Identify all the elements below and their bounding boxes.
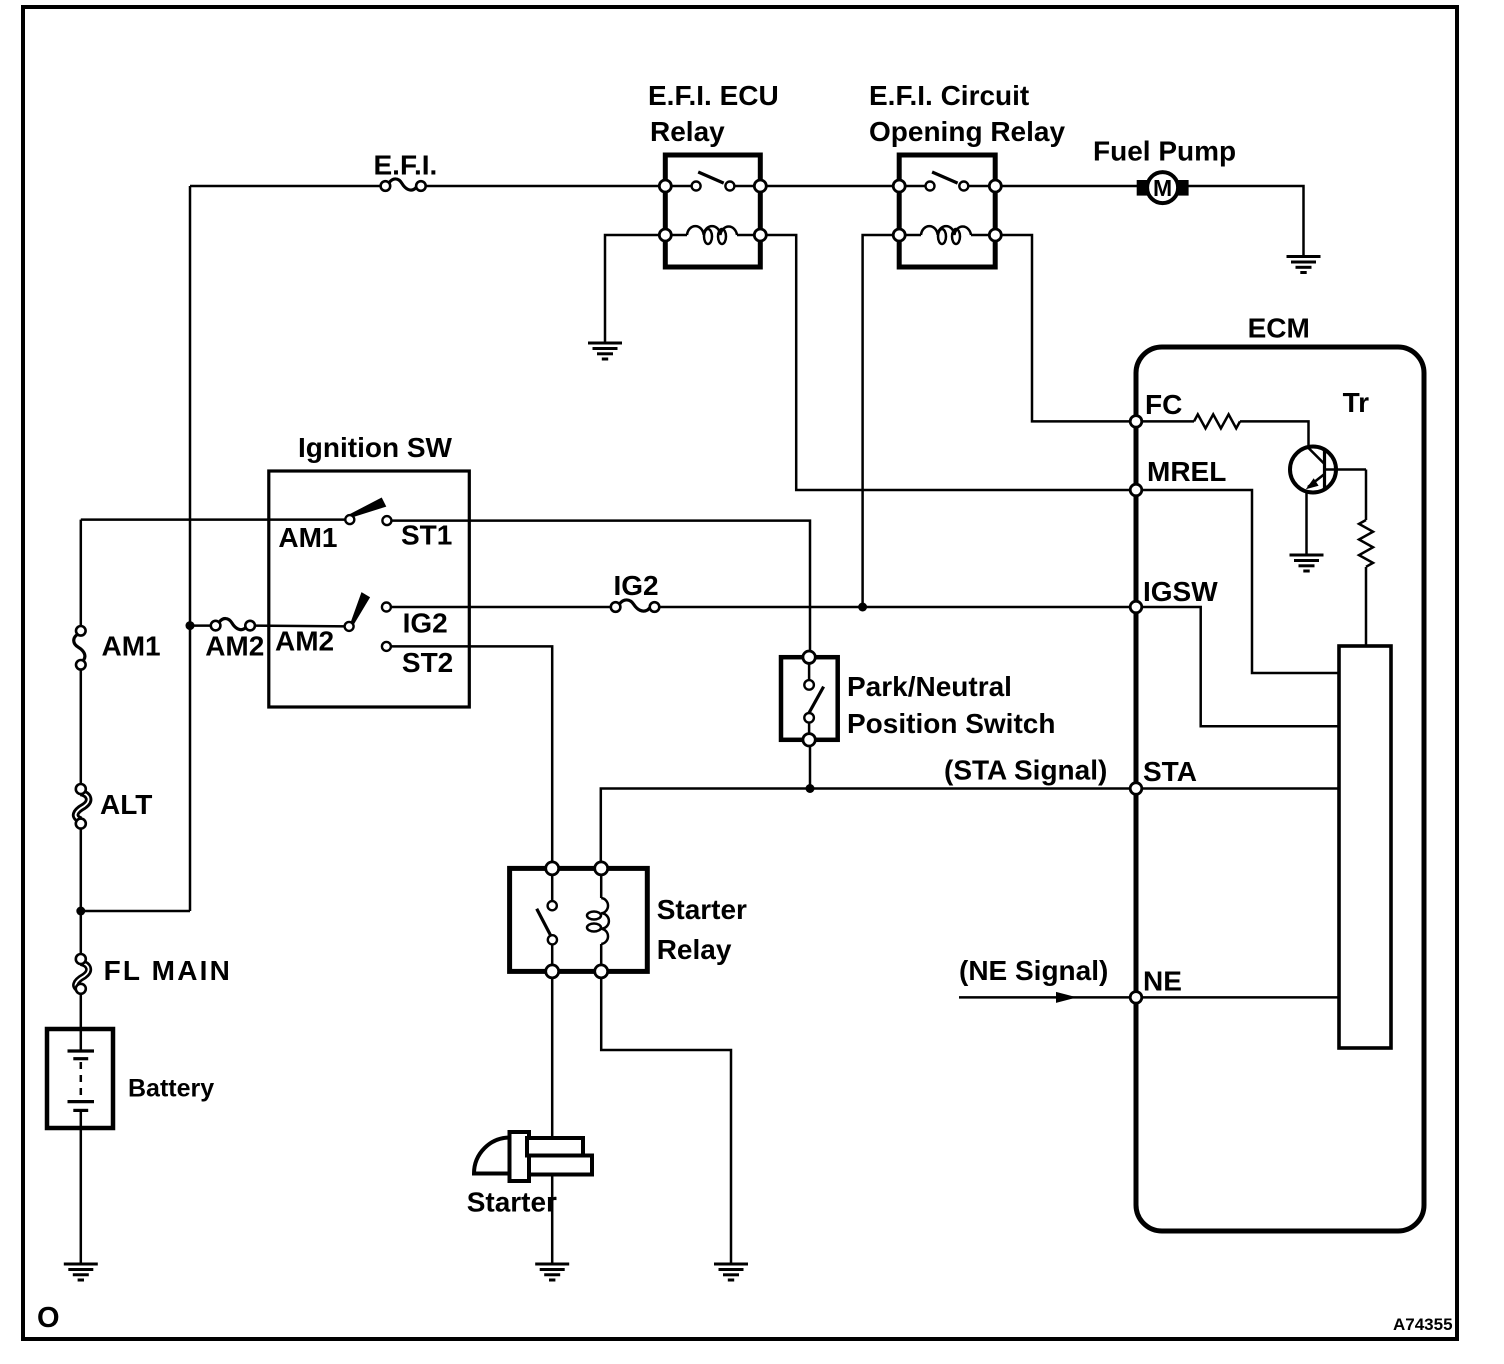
wire STA row	[601, 789, 1136, 869]
ground below fuel pump	[1287, 257, 1321, 273]
wire ST2 to starter relay	[386, 646, 552, 868]
fuse E.F.I.	[381, 179, 426, 191]
svg-text:O: O	[37, 1302, 60, 1334]
svg-text:E.F.I.: E.F.I.	[374, 150, 438, 181]
wire resistor 2 to logic block	[1365, 567, 1368, 646]
wire between relays	[760, 185, 899, 188]
opening relay coil	[905, 226, 989, 244]
svg-text:FC: FC	[1145, 389, 1182, 420]
svg-text:Fuel Pump: Fuel Pump	[1093, 136, 1236, 167]
starter relay box	[510, 868, 648, 971]
ignition switch IG2 lever and contacts	[345, 592, 391, 631]
svg-text:ST1: ST1	[401, 520, 452, 551]
wire battery junction horizontal	[81, 910, 190, 913]
wire ECU relay coil to ground	[605, 235, 665, 342]
svg-text:ST2: ST2	[402, 647, 453, 678]
wire FC to resistor	[1136, 420, 1194, 423]
svg-text:IGSW: IGSW	[1143, 576, 1218, 607]
ignition switch AM1-ST1 contacts and lever	[345, 498, 391, 526]
svg-text:(NE Signal): (NE Signal)	[959, 955, 1108, 986]
wire IG2 fuse to IGSW pin	[655, 606, 1137, 609]
svg-text:IG2: IG2	[403, 608, 448, 639]
resistor R2 emitter pull	[1359, 520, 1373, 567]
wire resistor to transistor base	[1240, 421, 1309, 450]
svg-text:AM1: AM1	[102, 630, 161, 661]
wire park/neutral to STA junction	[809, 740, 812, 789]
relay box E.F.I. ECU Relay	[665, 155, 760, 267]
wire ECU relay coil to MREL	[760, 235, 1136, 490]
wire E.F.I. fuse to ECU relay	[421, 185, 665, 188]
wire AM1 row to ignition switch	[81, 518, 350, 521]
starter relay coil	[587, 874, 609, 966]
svg-text:Starter: Starter	[467, 1186, 557, 1217]
wire E.F.I. feed horizontal	[190, 185, 385, 188]
wire starter relay to starter	[551, 971, 554, 1263]
ignition switch ST2 contact	[382, 642, 391, 651]
park/neutral switch pins	[803, 651, 815, 746]
ECM pin IGSW	[1130, 601, 1142, 613]
svg-text:Ignition SW: Ignition SW	[298, 432, 453, 463]
wire collector to resistor 2	[1365, 470, 1368, 521]
wire ALT to FL MAIN	[80, 824, 83, 959]
wire IGSW internal	[1136, 607, 1339, 726]
ECM pin STA	[1130, 783, 1142, 795]
starter relay pins	[546, 862, 608, 978]
ignition switch box	[269, 471, 470, 707]
ground transistor emitter	[1290, 555, 1324, 571]
svg-text:STA: STA	[1143, 756, 1197, 787]
fusible link FL MAIN	[76, 954, 89, 994]
relay box E.F.I. Circuit Opening Relay	[899, 155, 995, 267]
ground below ECU relay	[588, 343, 622, 359]
wire opening relay to fuel pump	[995, 186, 1303, 255]
svg-text:M: M	[1153, 175, 1172, 201]
wire battery to ground	[80, 1124, 83, 1263]
fuse AM2	[211, 619, 255, 631]
svg-text:NE: NE	[1143, 966, 1182, 997]
svg-text:ALT: ALT	[100, 789, 152, 820]
fusible link ALT	[76, 784, 89, 829]
wire AM1 fuse to ALT	[80, 665, 83, 789]
park/neutral switch internals	[804, 663, 823, 734]
starter motor symbol	[474, 1132, 592, 1181]
ground below battery	[64, 1264, 98, 1280]
ECM logic block	[1339, 646, 1391, 1048]
wire opening relay coil to FC	[995, 235, 1136, 421]
svg-text:ECM: ECM	[1248, 313, 1310, 344]
ground below starter	[535, 1264, 569, 1280]
fuel pump motor M1	[1137, 172, 1189, 203]
svg-text:Relay: Relay	[657, 934, 732, 965]
svg-text:Battery: Battery	[128, 1075, 214, 1103]
wire NE signal arrow	[959, 992, 1136, 1003]
wire ST1 to park/neutral switch	[387, 521, 810, 658]
wire MREL internal	[1136, 490, 1339, 673]
wire left battery column	[80, 520, 83, 631]
wire AM2 fuse row left	[190, 624, 216, 627]
wire AM2 fuse to IG2 switch contact	[250, 624, 349, 627]
fuse AM1	[74, 626, 86, 670]
ECM pin FC	[1130, 416, 1142, 428]
junction dot opening relay coil IG2	[858, 603, 867, 612]
battery box	[47, 1029, 113, 1128]
junction dot AM2 tap	[186, 621, 195, 630]
wire STA internal	[1136, 787, 1339, 790]
battery cell plates	[68, 1033, 95, 1124]
svg-text:AM1: AM1	[278, 522, 337, 553]
wire starter relay coil to ground	[601, 971, 731, 1263]
opening relay switch contacts and blade	[905, 172, 989, 191]
svg-text:IG2: IG2	[614, 570, 659, 601]
ground starter relay coil	[714, 1264, 748, 1280]
fuse IG2	[611, 600, 660, 612]
starter relay switch internals	[537, 874, 557, 966]
park/neutral position switch box	[781, 657, 838, 740]
svg-text:Park/Neutral: Park/Neutral	[847, 671, 1012, 702]
ECM pin MREL	[1130, 484, 1142, 496]
wire vertical from E.F.I. feed down to battery junction	[189, 186, 192, 911]
ECU relay pins	[659, 180, 766, 241]
svg-text:E.F.I. Circuit: E.F.I. Circuit	[869, 80, 1029, 111]
svg-text:Position Switch: Position Switch	[847, 708, 1055, 739]
ECM box U1	[1136, 347, 1424, 1231]
svg-text:Relay: Relay	[650, 116, 725, 147]
wire IG2 row to fuse	[386, 606, 615, 609]
svg-text:(STA Signal): (STA Signal)	[944, 755, 1107, 786]
wire FL MAIN to battery	[80, 989, 83, 1033]
svg-text:E.F.I. ECU: E.F.I. ECU	[648, 80, 779, 111]
svg-text:AM2: AM2	[275, 625, 334, 656]
ECU relay coil	[671, 226, 755, 244]
svg-text:Starter: Starter	[657, 894, 747, 925]
svg-text:A74355: A74355	[1393, 1315, 1453, 1334]
wire transistor emitter to ground	[1305, 490, 1308, 554]
svg-text:AM2: AM2	[205, 630, 264, 661]
ECU relay switch contacts and blade	[671, 172, 755, 191]
resistor R1 FC	[1194, 414, 1240, 428]
transistor Tr Q1	[1290, 447, 1366, 493]
wire opening relay coil to IG2 junction	[863, 235, 900, 607]
svg-text:FL MAIN: FL MAIN	[104, 955, 232, 986]
junction dot park/neutral STA	[806, 784, 815, 793]
svg-text:Tr: Tr	[1343, 387, 1370, 418]
svg-text:Opening Relay: Opening Relay	[869, 116, 1065, 147]
wire NE internal	[1136, 996, 1339, 999]
opening relay pins	[893, 180, 1001, 241]
ECM pin NE	[1130, 992, 1142, 1004]
junction dot battery column	[76, 907, 85, 916]
svg-text:MREL: MREL	[1147, 456, 1226, 487]
